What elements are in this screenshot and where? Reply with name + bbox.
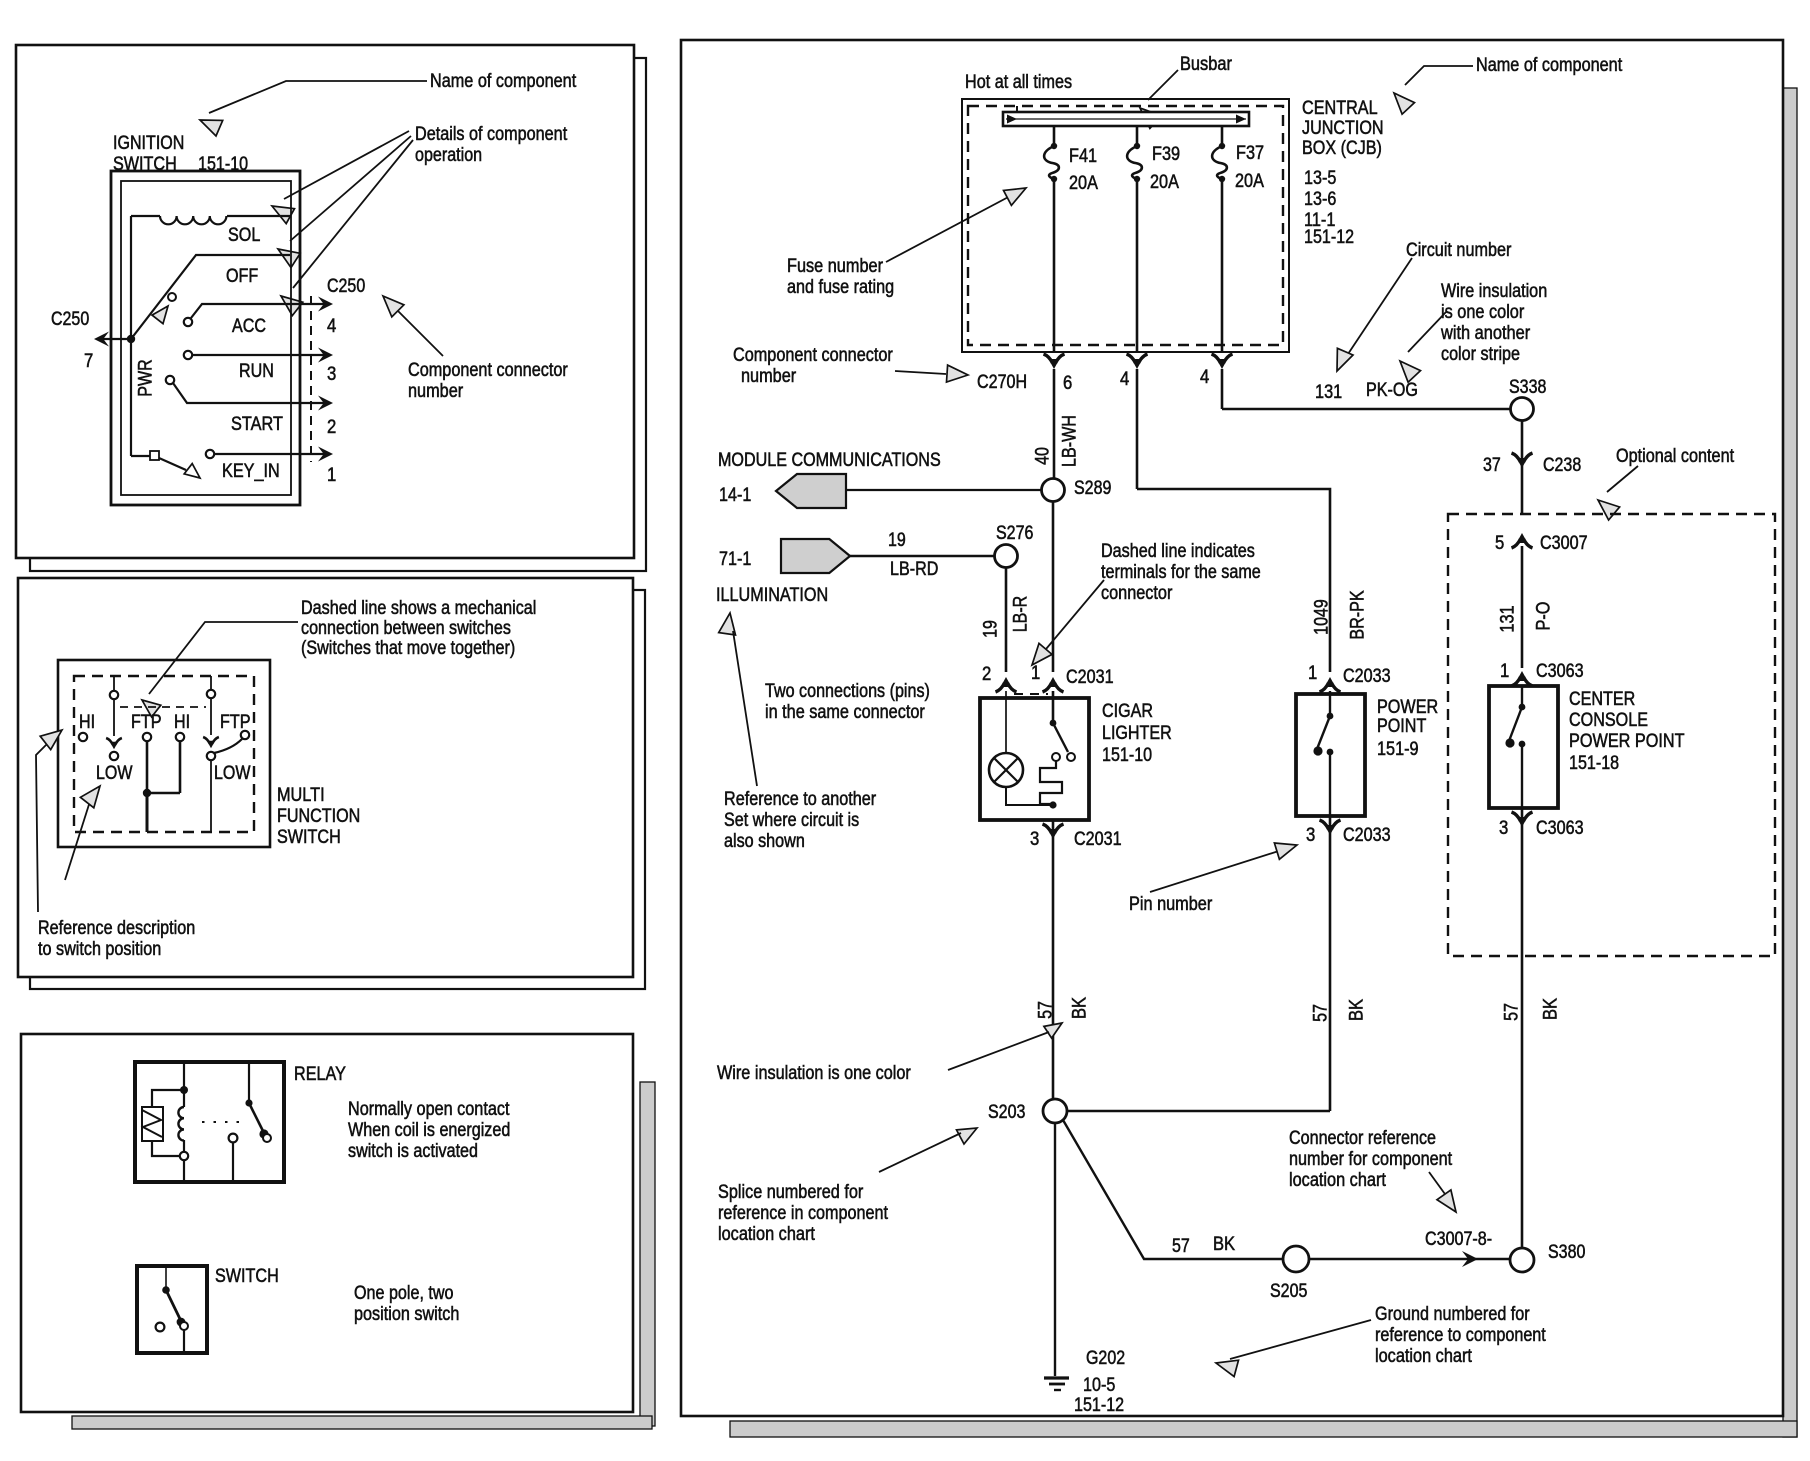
svg-text:MODULE COMMUNICATIONS: MODULE COMMUNICATIONS: [718, 450, 941, 471]
cigar lighter illumination lamp: [989, 753, 1023, 787]
contact: HI right: [176, 733, 184, 741]
svg-text:IGNITION: IGNITION: [113, 133, 184, 154]
svg-text:BK: BK: [1070, 997, 1091, 1019]
label: C270H: [977, 372, 1027, 393]
svg-text:with another: with another: [1440, 323, 1531, 344]
svg-text:operation: operation: [415, 145, 482, 166]
svg-text:Connector reference: Connector reference: [1289, 1128, 1436, 1149]
svg-text:S289: S289: [1074, 478, 1111, 499]
cigar lighter lamp return wire: [1006, 787, 1057, 809]
label: Wire insulation is one color with another color stripe: [1440, 281, 1547, 365]
wire: S276 horizontal to illumination: [848, 555, 994, 558]
svg-text:37: 37: [1483, 455, 1501, 476]
svg-text:3: 3: [1499, 818, 1508, 839]
svg-text:131: 131: [1498, 605, 1519, 632]
center console power point box: [1489, 686, 1558, 808]
svg-text:(Switches that move together): (Switches that move together): [301, 638, 515, 659]
panel: multifunction switch legend box: [18, 578, 633, 977]
leader to CJB: [1394, 66, 1473, 114]
svg-text:7: 7: [84, 351, 93, 372]
fuse F39 20A: [1127, 126, 1142, 352]
svg-text:C270H: C270H: [977, 372, 1027, 393]
svg-text:START: START: [231, 414, 283, 435]
label: Busbar: [1180, 54, 1232, 75]
wire: S203 down to ground G202: [1054, 1123, 1056, 1376]
svg-text:Details of component: Details of component: [415, 124, 568, 145]
svg-text:number for component: number for component: [1289, 1149, 1453, 1170]
switch box: [137, 1266, 207, 1353]
leader to C3007-8: [1429, 1172, 1456, 1212]
label: Name of component (CJB): [1476, 55, 1623, 76]
label: Wire insulation is one color: [717, 1063, 911, 1084]
switch blade: OFF position with motion arrow: [127, 255, 290, 343]
svg-text:S205: S205: [1270, 1281, 1307, 1302]
svg-text:LB-WH: LB-WH: [1060, 415, 1081, 467]
svg-text:6: 6: [1063, 373, 1072, 394]
svg-text:2: 2: [327, 417, 336, 438]
svg-text:C2031: C2031: [1066, 667, 1114, 688]
leader to LOW label: [65, 786, 100, 880]
label: ILLUMINATION: [716, 585, 828, 606]
leader to connector dashed line: [1032, 580, 1104, 665]
label: MODULE COMMUNICATIONS: [718, 450, 941, 471]
label: Fuse number and fuse rating: [787, 256, 894, 298]
svg-text:location chart: location chart: [1375, 1346, 1473, 1367]
label: Pin number: [1129, 894, 1213, 915]
fuse F41 20A: [1044, 126, 1059, 352]
label: circuit 40 LB-WH (rotated): [1033, 415, 1081, 467]
svg-text:Wire insulation is one color: Wire insulation is one color: [717, 1063, 911, 1084]
label: Component connector number: [733, 345, 893, 387]
svg-text:reference in component: reference in component: [718, 1203, 889, 1224]
svg-text:151-12: 151-12: [1304, 227, 1354, 248]
leader to pin 3: [1150, 843, 1297, 892]
label: pin 4 (F39): [1120, 369, 1130, 390]
label: switch description: [354, 1283, 459, 1325]
leader to BK wire: [948, 1032, 1049, 1070]
label: S203: [988, 1102, 1025, 1123]
svg-text:4: 4: [1200, 367, 1210, 388]
svg-text:terminals for the same: terminals for the same: [1101, 562, 1261, 583]
switch 2 pole with motion arrow and FTP blade: [203, 676, 242, 760]
connector pin 3 C2033 below power point: [1320, 816, 1341, 1111]
svg-text:57: 57: [1172, 1236, 1190, 1257]
svg-text:Set where circuit is: Set where circuit is: [724, 810, 859, 831]
wire: S276 down to cigar lighter pin 2: [1005, 568, 1008, 672]
svg-text:Reference to another: Reference to another: [724, 789, 877, 810]
svg-text:MULTI: MULTI: [277, 785, 325, 806]
svg-text:5: 5: [1495, 533, 1504, 554]
label: circuit 1049 BR-PK (rotated): [1312, 590, 1369, 640]
multifunction switch solid box: [58, 660, 270, 847]
svg-text:20A: 20A: [1069, 173, 1098, 194]
cigar lighter lamp wire: [1005, 691, 1007, 753]
label: C3063 top: [1536, 661, 1584, 682]
label: FTP right: [220, 712, 251, 733]
svg-text:FTP: FTP: [131, 712, 162, 733]
central junction box dashed box: [968, 106, 1283, 345]
label: SOL: [228, 225, 260, 246]
wire: S338 to C238: [1521, 421, 1524, 514]
dashed mechanical link between switch poles: [120, 706, 206, 708]
leader to HI label: [36, 730, 62, 912]
pointer triangle on BK wire: [1044, 1023, 1062, 1038]
label: S289: [1074, 478, 1111, 499]
contact and wire: START row to pin 2: [166, 376, 333, 411]
label: circuit 57 BK center console (rotated): [1502, 998, 1562, 1021]
svg-text:When coil is energized: When coil is energized: [348, 1120, 510, 1141]
svg-text:S380: S380: [1548, 1242, 1585, 1263]
svg-text:switch is activated: switch is activated: [348, 1141, 478, 1162]
svg-text:ACC: ACC: [232, 316, 266, 337]
wire: F39 elbow to power point pin 1: [1137, 489, 1330, 672]
svg-text:71-1: 71-1: [719, 549, 751, 570]
svg-text:S276: S276: [996, 523, 1033, 544]
wire: S203 diagonal to S205 and S380: [1063, 1120, 1511, 1267]
svg-text:57: 57: [1502, 1003, 1523, 1021]
leaders to switch details: [272, 131, 413, 316]
svg-text:Optional content: Optional content: [1616, 446, 1735, 467]
svg-text:ILLUMINATION: ILLUMINATION: [716, 585, 828, 606]
connector pin arrow: CJB pin 4 (F39): [1127, 354, 1148, 489]
connector pin 3 C2031 below cigar lighter: [1043, 820, 1064, 1099]
svg-text:OFF: OFF: [226, 266, 258, 287]
svg-text:POINT: POINT: [1377, 716, 1427, 737]
svg-text:Dashed line indicates: Dashed line indicates: [1101, 541, 1255, 562]
label: pin 2: [327, 417, 336, 438]
svg-text:CONSOLE: CONSOLE: [1569, 710, 1648, 731]
svg-text:HI: HI: [174, 712, 190, 733]
label: 14-1: [719, 485, 751, 506]
svg-text:position switch: position switch: [354, 1304, 459, 1325]
wire: S289 horizontal to module communications: [846, 489, 1041, 491]
svg-text:C3007-8-: C3007-8-: [1425, 1229, 1492, 1250]
leader to circuit number 131: [1337, 258, 1412, 371]
label: START: [231, 414, 283, 435]
svg-text:SWITCH: SWITCH: [277, 827, 341, 848]
label: LOW left: [96, 763, 133, 784]
svg-text:RELAY: RELAY: [294, 1064, 346, 1085]
contact: HI left: [79, 733, 87, 741]
svg-text:SOL: SOL: [228, 225, 260, 246]
optional content dashed box: [1448, 514, 1775, 956]
svg-text:P-O: P-O: [1534, 602, 1555, 631]
label: Optional content: [1616, 446, 1735, 467]
svg-text:C250: C250: [51, 309, 89, 330]
svg-text:19: 19: [981, 620, 1002, 638]
wire: switch 2 lower pole to box bottom: [210, 760, 212, 831]
svg-text:C2033: C2033: [1343, 825, 1391, 846]
panel: main wiring diagram shadow (bottom): [730, 1421, 1797, 1437]
label: KEY_IN: [222, 461, 280, 482]
svg-text:3: 3: [1030, 829, 1039, 850]
svg-text:C250: C250: [327, 276, 365, 297]
svg-text:G202: G202: [1086, 1348, 1125, 1369]
relay coil winding: [178, 1062, 188, 1182]
label: MULTI FUNCTION SWITCH: [277, 785, 360, 848]
label: circuit 131 PK-OG: [1315, 380, 1418, 403]
label: pin 4: [327, 316, 337, 337]
label: C3007-8-: [1425, 1229, 1492, 1250]
panel: multifunction switch legend box shadow: [30, 590, 645, 989]
label: HI right: [174, 712, 190, 733]
relay coil resistor element: [142, 1107, 163, 1141]
wire: F37 to splice S338: [1222, 408, 1510, 411]
svg-text:4: 4: [327, 316, 337, 337]
label: OFF: [226, 266, 258, 287]
panel: relay and switch legend box shadow (right): [640, 1082, 655, 1426]
svg-text:Hot at all times: Hot at all times: [965, 72, 1072, 93]
label: Reference to another Set where circuit is also shown: [724, 789, 877, 852]
central junction box outer solid box: [962, 99, 1289, 352]
svg-text:POWER POINT: POWER POINT: [1569, 731, 1685, 752]
splice S205: [1283, 1246, 1309, 1272]
power point switch: [1313, 691, 1333, 816]
label: Splice numbered for reference in component location chart: [718, 1182, 889, 1245]
label: circuit 57 BK power point (rotated): [1311, 999, 1368, 1022]
label: C250 left: [51, 309, 89, 330]
busbar: [1003, 106, 1249, 126]
off-page connector: ILLUMINATION 71-1: [781, 539, 850, 573]
svg-text:PWR: PWR: [136, 359, 157, 396]
label: RELAY: [294, 1064, 346, 1085]
contact: FTP left: [143, 733, 151, 741]
label: CIGAR LIGHTER 151-10: [1102, 701, 1172, 766]
panel: relay and switch legend box: [21, 1034, 633, 1412]
svg-text:1: 1: [1031, 663, 1040, 684]
svg-text:C3063: C3063: [1536, 661, 1584, 682]
svg-text:BK: BK: [1213, 1234, 1235, 1255]
label: 37 C238: [1483, 455, 1581, 476]
svg-text:F39: F39: [1152, 144, 1180, 165]
connector pin arrow: CJB pin 4 (F37): [1212, 354, 1233, 409]
svg-text:number: number: [741, 366, 797, 387]
svg-text:and fuse rating: and fuse rating: [787, 277, 894, 298]
label: Two connections (pins) in the same connector: [765, 681, 930, 723]
leader to busbar: [1140, 70, 1178, 128]
svg-text:151-18: 151-18: [1569, 753, 1619, 774]
dashed connector line C250 (right): [310, 296, 312, 462]
label: 57 BK splice run: [1172, 1234, 1235, 1257]
svg-text:FUNCTION: FUNCTION: [277, 806, 360, 827]
wire: FTP left through LOW junction: [143, 741, 180, 832]
label: IGNITION SWITCH 151-10: [113, 133, 248, 175]
label: CJB page references: [1304, 168, 1354, 248]
ground G202 symbol: [1044, 1378, 1069, 1390]
label: F41 20A: [1069, 146, 1098, 194]
svg-text:57: 57: [1311, 1004, 1332, 1022]
svg-text:Wire insulation: Wire insulation: [1441, 281, 1547, 302]
svg-text:Name of component: Name of component: [1476, 55, 1623, 76]
connector pin 1 C2033: [1308, 663, 1341, 692]
label: circuit 131 P-O (rotated): [1498, 602, 1555, 633]
label: 71-1: [719, 549, 751, 570]
label: 3 C2031 bottom: [1030, 829, 1122, 850]
svg-text:Component connector: Component connector: [733, 345, 893, 366]
label: pin 7: [84, 351, 93, 372]
svg-text:3: 3: [327, 364, 336, 385]
connector pin 1 C3063: [1500, 661, 1533, 686]
splice S380: [1510, 1248, 1534, 1272]
label: POWER POINT 151-9: [1377, 697, 1438, 760]
label: HI left: [79, 712, 95, 733]
svg-text:151-9: 151-9: [1377, 739, 1419, 760]
leader to fuse F41: [886, 188, 1026, 262]
leader arrow from reference text to illumination: [719, 613, 757, 786]
leader to C250: [383, 296, 443, 356]
connector pin 3 C3063 below: [1512, 808, 1533, 1248]
power point box: [1296, 694, 1365, 816]
contact: FTP right: [241, 731, 249, 739]
svg-text:10-5: 10-5: [1083, 1375, 1115, 1396]
svg-text:Component connector: Component connector: [408, 360, 568, 381]
svg-text:13-6: 13-6: [1304, 189, 1336, 210]
splice S338: [1511, 398, 1534, 421]
svg-text:Two connections (pins): Two connections (pins): [765, 681, 930, 702]
svg-text:C3007: C3007: [1540, 533, 1588, 554]
svg-text:4: 4: [1120, 369, 1130, 390]
svg-text:One pole, two: One pole, two: [354, 1283, 454, 1304]
label: LOW right: [214, 763, 251, 784]
svg-text:connector: connector: [1101, 583, 1173, 604]
svg-text:1049: 1049: [1312, 599, 1333, 635]
wire: C250 pin 7 exit to left: [94, 332, 131, 347]
svg-text:Circuit number: Circuit number: [1406, 240, 1512, 261]
label: ACC: [232, 316, 266, 337]
connector pin arrow: CJB pin 6: [1044, 354, 1065, 478]
svg-text:19: 19: [888, 530, 906, 551]
label: pin 1: [327, 465, 336, 486]
svg-text:KEY_IN: KEY_IN: [222, 461, 280, 482]
svg-text:Pin number: Pin number: [1129, 894, 1213, 915]
svg-text:BOX (CJB): BOX (CJB): [1302, 138, 1382, 159]
contact and wire: RUN row to pin 3: [184, 348, 333, 363]
svg-text:reference to component: reference to component: [1375, 1325, 1546, 1346]
fuse F37 20A: [1212, 126, 1227, 352]
svg-text:F41: F41: [1069, 146, 1097, 167]
svg-text:Fuse number: Fuse number: [787, 256, 884, 277]
leader to wire color PK-OG: [1400, 312, 1446, 382]
label: Component connector number: [408, 360, 568, 402]
label: Name of component: [430, 71, 577, 92]
svg-text:S338: S338: [1509, 377, 1546, 398]
label: circuit 19 LB-R (rotated): [981, 596, 1032, 638]
svg-text:Name of component: Name of component: [430, 71, 577, 92]
contact and wire: ACC row to pin 4: [184, 297, 333, 327]
svg-text:LOW: LOW: [96, 763, 133, 784]
svg-text:C2031: C2031: [1074, 829, 1122, 850]
switch symbol: pole, blade, contacts: [156, 1266, 188, 1353]
relay switch: pivot, blade and contact: [229, 1062, 271, 1182]
svg-text:1: 1: [1308, 663, 1317, 684]
svg-text:131: 131: [1315, 382, 1342, 403]
svg-text:151-10: 151-10: [1102, 745, 1152, 766]
svg-text:BK: BK: [1347, 999, 1368, 1021]
svg-text:CIGAR: CIGAR: [1102, 701, 1153, 722]
label: CENTER CONSOLE POWER POINT 151-18: [1569, 689, 1685, 774]
label: F39 20A: [1150, 144, 1180, 193]
label: 5 C3007: [1495, 533, 1588, 554]
multifunction switch dashed box: [74, 676, 254, 832]
center console power point switch: [1505, 687, 1525, 808]
svg-text:Ground numbered for: Ground numbered for: [1375, 1304, 1530, 1325]
label: pin 3: [327, 364, 336, 385]
svg-text:F37: F37: [1236, 143, 1264, 164]
panel: main wiring diagram box: [681, 40, 1783, 1416]
leader to C270H: [895, 365, 968, 382]
svg-text:14-1: 14-1: [719, 485, 751, 506]
label: C2031 top: [1066, 667, 1114, 688]
cigar lighter switch blade: [1050, 691, 1075, 761]
label: Details of component operation: [415, 124, 568, 166]
relay box: [135, 1062, 284, 1182]
svg-text:LOW: LOW: [214, 763, 251, 784]
svg-text:connection between switches: connection between switches: [301, 618, 511, 639]
svg-text:LIGHTER: LIGHTER: [1102, 723, 1172, 744]
svg-text:BK: BK: [1541, 998, 1562, 1020]
label: C2033 top: [1343, 666, 1391, 687]
connector pins C2031 into cigar lighter: [982, 663, 1064, 694]
label: FTP left: [131, 712, 162, 733]
label: S380: [1548, 1242, 1585, 1263]
svg-text:151-12: 151-12: [1074, 1395, 1124, 1416]
label: CENTRAL JUNCTION BOX (CJB): [1302, 98, 1384, 159]
label: Dashed line indicates terminals for the same connector: [1101, 541, 1261, 604]
svg-text:number: number: [408, 381, 464, 402]
connector arrow C238: [1512, 453, 1533, 468]
svg-text:CENTER: CENTER: [1569, 689, 1635, 710]
switch 1 pole with motion arrow: [106, 676, 122, 760]
svg-text:40: 40: [1033, 447, 1054, 465]
svg-text:to switch position: to switch position: [38, 939, 161, 960]
ignition switch outer box: [111, 171, 300, 505]
svg-text:20A: 20A: [1235, 171, 1264, 192]
label: 19 LB-RD: [888, 530, 938, 580]
leader to ignition switch: [200, 81, 427, 136]
splice S276: [995, 545, 1018, 568]
label: S276: [996, 523, 1033, 544]
svg-text:20A: 20A: [1150, 172, 1179, 193]
svg-text:Busbar: Busbar: [1180, 54, 1232, 75]
leader to optional content box: [1598, 466, 1638, 520]
leader arrow to S203: [879, 1128, 977, 1172]
panel: ignition switch legend box shadow: [30, 58, 646, 571]
contact and wire: KEY_IN row to pin 1: [131, 447, 333, 479]
svg-text:color stripe: color stripe: [1441, 344, 1520, 365]
label: Dashed line shows a mechanical connection: [301, 598, 536, 659]
svg-text:3: 3: [1306, 825, 1315, 846]
panel: main wiring diagram shadow (right): [1783, 88, 1797, 1437]
leader to ground area: [1216, 1320, 1371, 1377]
label: circuit 57 BK cigar lighter (rotated): [1036, 997, 1091, 1019]
label: RUN: [239, 361, 274, 382]
relay coil left branch wire: [152, 1090, 184, 1156]
svg-text:location chart: location chart: [1289, 1170, 1387, 1191]
svg-text:57: 57: [1036, 1001, 1057, 1019]
label: 3 C2033 bottom: [1306, 825, 1391, 846]
label: G202 10-5 151-12: [1074, 1348, 1125, 1416]
svg-text:also shown: also shown: [724, 831, 805, 852]
svg-text:HI: HI: [79, 712, 95, 733]
label: Ground numbered for reference to component location chart: [1375, 1304, 1546, 1367]
svg-text:is one color: is one color: [1441, 302, 1525, 323]
svg-text:2: 2: [982, 664, 991, 685]
label: Reference description to switch position: [38, 918, 195, 960]
label: F37 20A: [1235, 143, 1264, 192]
svg-text:location chart: location chart: [718, 1224, 816, 1245]
svg-text:C2033: C2033: [1343, 666, 1391, 687]
cigar lighter heating element: [1040, 753, 1062, 804]
